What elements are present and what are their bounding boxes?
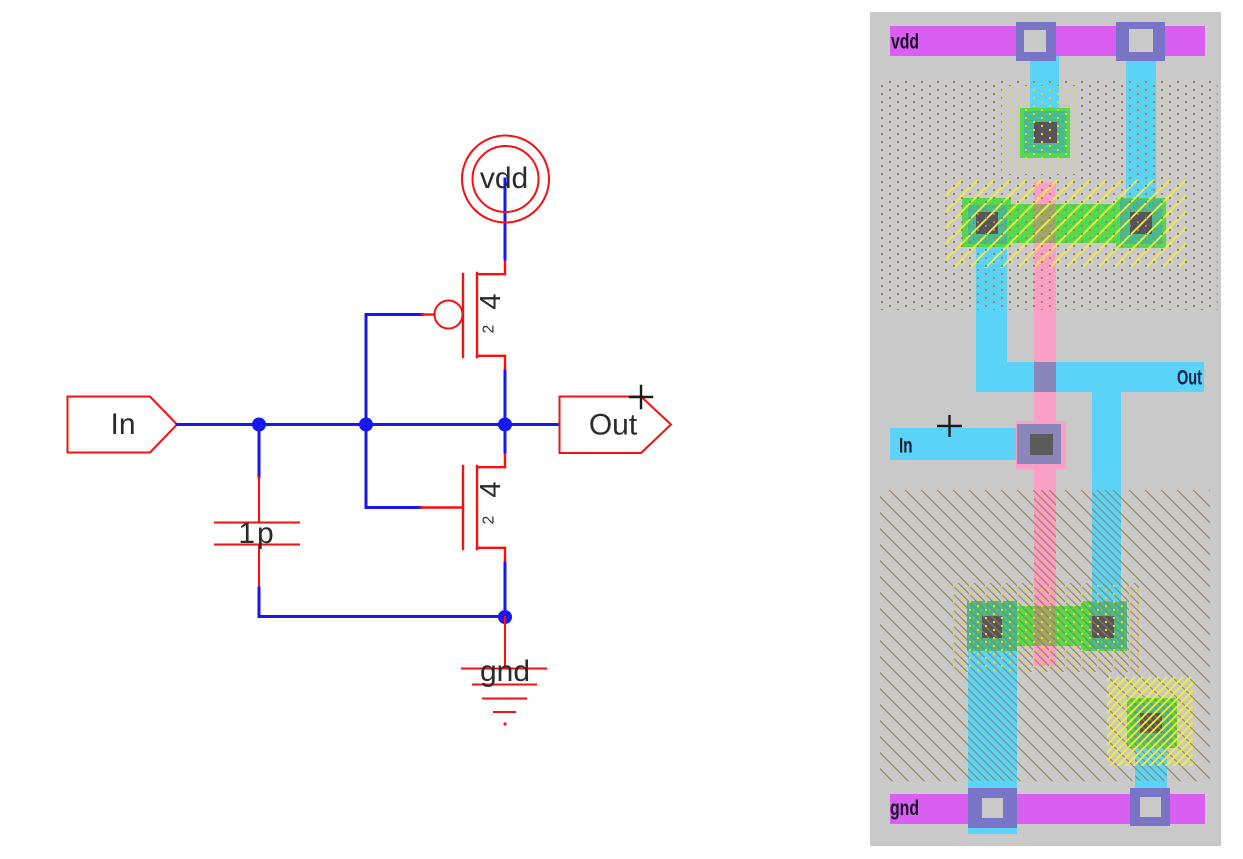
dense hatch over pwell features bbox=[953, 490, 1177, 781]
nmos left contact cut bbox=[982, 616, 1002, 638]
poly pad at In via bbox=[1016, 421, 1066, 469]
port In bbox=[68, 397, 178, 453]
substrate tap diffusion bbox=[1127, 698, 1177, 748]
pmos left metal pad bbox=[968, 205, 1007, 244]
metal1 vdd rail bbox=[890, 26, 1205, 56]
poly over nmos channel bbox=[1034, 606, 1056, 646]
wire junction2 down to nmos gate bbox=[366, 425, 421, 508]
wire pmos source to junction3 bbox=[504, 371, 507, 425]
nmos ndiff left square bbox=[967, 601, 1017, 651]
poly contact on out band bbox=[1034, 362, 1056, 392]
svg-text:In: In bbox=[899, 435, 913, 458]
svg-text:4: 4 bbox=[475, 481, 507, 497]
layout panel background bbox=[870, 12, 1221, 846]
via gnd right bbox=[1130, 788, 1170, 826]
wire nmos drain to junction3 bbox=[504, 425, 507, 453]
port Out bbox=[560, 397, 672, 454]
svg-text:In: In bbox=[110, 408, 135, 441]
pmos right contact cut bbox=[1130, 212, 1152, 234]
nmos right contact cut bbox=[1092, 616, 1114, 638]
nmos nselect yellow dots bbox=[953, 583, 1139, 672]
via gnd left bbox=[968, 788, 1017, 828]
poly out band to In via bbox=[1034, 392, 1056, 421]
m1 stripe pmos drain down to out band bbox=[976, 247, 1007, 392]
svg-text:2: 2 bbox=[481, 516, 498, 525]
substrate tap metal pad bbox=[1133, 703, 1172, 743]
m1 out band bbox=[976, 362, 1204, 392]
wire junction3 to Out port bbox=[505, 423, 559, 426]
pmos pdiff right square bbox=[1116, 198, 1166, 248]
via2 vdd bbox=[1116, 22, 1165, 61]
schematic cursor cross bbox=[630, 386, 652, 408]
poly In via down to nmos bbox=[1034, 469, 1056, 606]
wire In to node row bbox=[177, 423, 559, 426]
svg-text:vdd: vdd bbox=[480, 162, 528, 195]
poly pmos to out band bbox=[1034, 243, 1056, 362]
pmos M1 bbox=[422, 259, 505, 371]
svg-text:4: 4 bbox=[475, 293, 507, 309]
svg-text:gnd: gnd bbox=[480, 655, 530, 688]
m1 stripe from via1 down to nwell tap bbox=[1030, 56, 1059, 112]
m1 In band bbox=[890, 428, 1016, 460]
poly stub below nmos bbox=[1034, 646, 1056, 666]
node junction 2 bbox=[359, 418, 373, 432]
pmos pselect hatch bbox=[945, 180, 1186, 268]
poly over pmos channel bbox=[1034, 204, 1056, 243]
m1 stripe out band down to nmos drain bbox=[1092, 392, 1121, 603]
svg-text:2: 2 bbox=[481, 325, 498, 334]
svg-text:Out: Out bbox=[1177, 367, 1202, 390]
In poly contact square bbox=[1017, 424, 1061, 464]
svg-text:Out: Out bbox=[589, 409, 638, 442]
m1 stripe nmos source down to gnd bbox=[968, 651, 1017, 834]
nmos M2 bbox=[421, 452, 505, 563]
wire capacitor to bottom rail bbox=[259, 588, 505, 617]
layout cursor cross bbox=[937, 415, 962, 437]
via1 vdd bbox=[1016, 22, 1056, 61]
wire junction4 to gnd bbox=[504, 617, 506, 668]
m1 stripe tap down to gnd bbox=[1135, 748, 1167, 788]
pmos left contact cut bbox=[976, 212, 998, 234]
gnd symbol bbox=[462, 669, 546, 713]
svg-text:gnd: gnd bbox=[890, 797, 919, 820]
substrate tap select hatch bbox=[1107, 677, 1193, 766]
pmos right metal pad bbox=[1120, 199, 1162, 244]
nwell tap contact cut bbox=[1034, 122, 1057, 143]
gnd symbol dot bbox=[503, 722, 506, 725]
wire junction2 up to pmos gate bbox=[366, 315, 422, 425]
poly stub above pmos bbox=[1034, 182, 1056, 204]
node junction 3 bbox=[498, 418, 512, 432]
pmos pdiff left square bbox=[962, 198, 1011, 247]
wire nmos source down to bottom node bbox=[504, 563, 507, 617]
wire junction1 down to capacitor bbox=[258, 425, 261, 478]
nwell tap metal pad bbox=[1024, 111, 1066, 153]
bottom node junction 4 bbox=[498, 610, 512, 624]
capacitor C1 1p bbox=[215, 477, 299, 588]
node junction 1 bbox=[252, 418, 266, 432]
In contact cut bbox=[1030, 434, 1053, 455]
pwell hatch bbox=[880, 490, 1210, 781]
wire pmos drain to vdd bbox=[504, 179, 507, 259]
nwell tap diffusion square bbox=[1020, 108, 1070, 158]
nwell tap select yellow dots bbox=[1002, 86, 1078, 174]
metal1 gnd rail bbox=[890, 794, 1205, 824]
vdd supply symbol bbox=[462, 136, 549, 223]
nwell dotted overlay bbox=[877, 80, 1218, 310]
nmos ndiff right square bbox=[1081, 601, 1127, 651]
nmos left metal pad bbox=[967, 601, 1017, 651]
svg-text:vdd: vdd bbox=[891, 31, 919, 54]
nmos ndiff band bbox=[1017, 606, 1081, 646]
pmos pdiff band bbox=[1011, 204, 1116, 243]
svg-text:1p: 1p bbox=[238, 517, 275, 550]
nmos right metal pad bbox=[1089, 602, 1127, 649]
m1 stripe from via2 down to pmos source bbox=[1126, 56, 1156, 205]
substrate tap contact cut bbox=[1140, 713, 1162, 733]
